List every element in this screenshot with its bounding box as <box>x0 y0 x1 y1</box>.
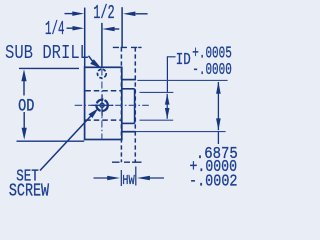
OD right extension line D <box>136 131 226 133</box>
bore hidden line upper <box>85 90 121 92</box>
SET SCREW leader <box>40 108 99 170</box>
boss right edge <box>134 89 136 124</box>
HW left arrow <box>94 176 121 180</box>
boss step upper line <box>122 79 136 81</box>
ID dimension arrows <box>165 94 170 119</box>
svg-text:ID: ID <box>176 51 191 70</box>
phantom top line <box>113 46 142 48</box>
set screw cross vertical <box>101 94 103 116</box>
ID leader <box>167 57 175 93</box>
svg-text:SCREW: SCREW <box>9 181 49 200</box>
HW extension tick right <box>135 167 137 186</box>
extension line center (x=101.9) <box>101 23 103 68</box>
ID extension line lower <box>140 119 174 121</box>
SUB DRILL leader <box>89 56 102 69</box>
OD top extension line <box>19 67 79 69</box>
boss bottom line <box>122 122 135 124</box>
dim 1/2 right arrow <box>123 12 148 17</box>
OD dimension arrows <box>21 69 26 140</box>
svg-text:OD: OD <box>18 96 34 116</box>
phantom bushing left edge (dashed) <box>120 47 122 162</box>
svg-text:-.0000: -.0000 <box>192 61 232 80</box>
horizontal center line <box>75 104 149 106</box>
extension line right (x=122.1) <box>121 7 123 47</box>
boss step lower line <box>122 131 136 133</box>
sub drill hole (dashed circle) <box>97 68 107 78</box>
extension line left (x=84.7) <box>84 8 86 68</box>
phantom bushing right edge (dashed) <box>134 47 136 162</box>
set screw inner circle <box>100 103 104 107</box>
dim 1/2 left arrow <box>65 11 85 16</box>
ID extension line upper <box>140 91 174 93</box>
phantom bottom line <box>112 161 142 163</box>
boss top line <box>122 88 135 90</box>
set screw crosshair outer circle <box>95 99 108 112</box>
dim 1/4 right arrow <box>102 27 119 32</box>
svg-text:1/2: 1/2 <box>93 2 115 24</box>
OD right extension line A <box>137 79 227 81</box>
bore hidden line lower <box>85 119 121 121</box>
vertical center line <box>101 69 103 140</box>
svg-text:HW: HW <box>122 173 135 189</box>
svg-text:1/4: 1/4 <box>45 18 65 40</box>
OD bottom extension line <box>17 140 85 142</box>
svg-text:-.0002: -.0002 <box>189 172 238 191</box>
svg-text:SUB DRILL: SUB DRILL <box>5 42 89 64</box>
dim 1/4 left arrow <box>67 26 85 31</box>
main body rectangle <box>85 67 122 139</box>
HW right arrow <box>137 176 164 180</box>
set screw cross horizontal <box>91 104 113 106</box>
HW extension tick left <box>120 170 122 186</box>
.6875 dimension arrows <box>216 82 221 144</box>
